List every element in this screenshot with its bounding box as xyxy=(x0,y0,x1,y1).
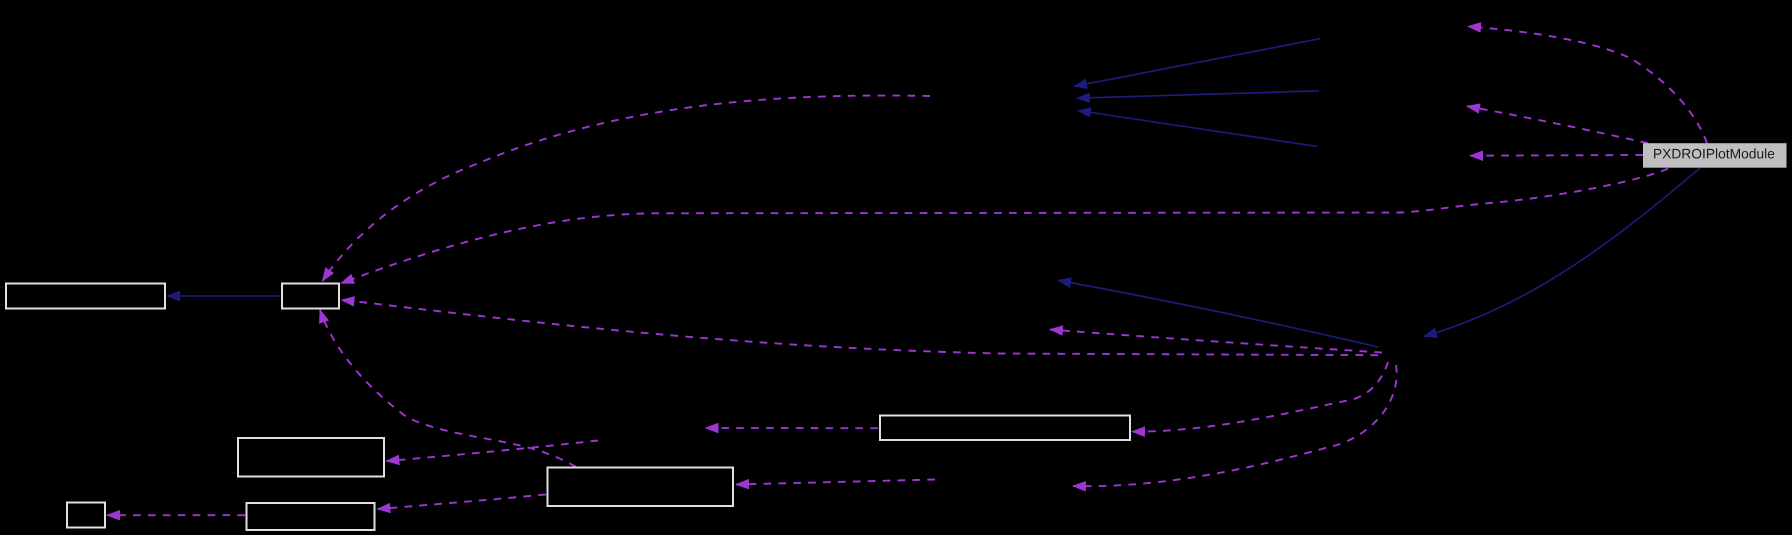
wire: dashed edge C -> N3 (top right arc) xyxy=(1468,27,1707,144)
wire: blue edge upper-right node group line 3 xyxy=(1078,111,1317,147)
node B: hub box xyxy=(282,284,339,309)
wire: dashed edge N6 -> G xyxy=(736,480,935,485)
wire: dashed edge E -> F xyxy=(107,514,245,516)
wire: dashed arc N1 -> B (top big arc) xyxy=(323,96,931,281)
wire: dashed edge R -> N9 xyxy=(1050,330,1382,353)
wire: blue inheritance edge node3->node2 (B to A) xyxy=(167,39,1700,347)
wire: dashed edge R -> H xyxy=(1132,362,1388,432)
wire: dashed edge R -> B (long low line) xyxy=(342,300,1379,355)
wire: dashed edge C -> N5 xyxy=(1470,154,1643,157)
wire: dashed long edge C -> B (P4) xyxy=(341,169,1668,284)
node A: left box xyxy=(6,284,165,309)
node G xyxy=(548,468,734,507)
node F xyxy=(67,503,105,528)
wire: dashed edge C -> N4 xyxy=(1467,106,1648,143)
node H xyxy=(880,416,1130,441)
node D xyxy=(238,438,384,477)
wire: blue edge R -> N8 xyxy=(1058,280,1378,347)
wire: blue edge upper-right node group line 1 xyxy=(1074,39,1320,87)
node E xyxy=(247,503,375,530)
wire: dashed edge R -> N6 xyxy=(1073,365,1397,486)
wire: blue edge PXDROIPlotModule -> Module (C to R) xyxy=(1424,168,1700,337)
wire: dashed edge G -> E xyxy=(378,495,547,510)
wire: dashed edge G -> B (S curve) xyxy=(320,310,576,467)
wire: blue edge upper-right node group line 2 xyxy=(1077,91,1319,98)
wire: dashed edge H -> N10 xyxy=(706,427,879,429)
wire: dashed edge N10 -> D xyxy=(387,441,599,462)
node C: PXDROIPlotModule (grey) xyxy=(1644,144,1787,168)
